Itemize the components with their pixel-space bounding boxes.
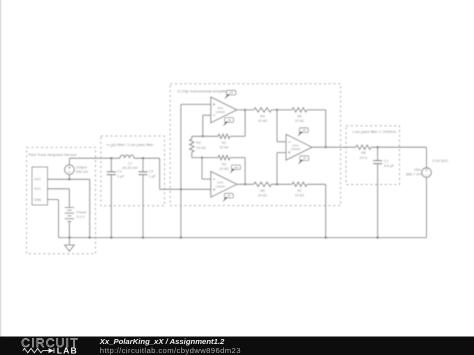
svg-text:R8: R8 [361, 151, 366, 155]
svg-text:L1: L1 [128, 161, 132, 165]
svg-text:C7: C7 [384, 160, 389, 164]
svg-text:Output: Output [76, 165, 87, 169]
svg-text:VM1: VM1 [414, 168, 421, 172]
svg-text:LM324: LM324 [216, 184, 226, 188]
svg-text:π (pi) filter / Low pass filte: π (pi) filter / Low pass filter [107, 142, 155, 147]
svg-text:Pitot Tube Airspeed Sensor: Pitot Tube Airspeed Sensor [28, 152, 77, 157]
svg-text:R6: R6 [297, 114, 302, 118]
svg-text:+5v: +5v [302, 128, 307, 132]
svg-text:10 kΩ: 10 kΩ [295, 119, 305, 123]
svg-text:R7: R7 [297, 189, 302, 193]
svg-text:+5v: +5v [234, 165, 239, 169]
svg-text:R3: R3 [222, 162, 227, 166]
svg-text:1 µF: 1 µF [117, 174, 125, 178]
svg-text:R2: R2 [196, 141, 201, 145]
svg-text:http://circuitlab.com/cbydww89: http://circuitlab.com/cbydww896dm23 [100, 346, 241, 355]
svg-text:R4: R4 [260, 114, 265, 118]
svg-text:26.33 mH: 26.33 mH [122, 166, 138, 170]
svg-text:24 Ω: 24 Ω [360, 156, 368, 160]
svg-text:10 kΩ: 10 kΩ [219, 146, 229, 150]
svg-text:24 kΩ: 24 kΩ [196, 146, 206, 150]
svg-text:Xx_PolarKing_xX / Assignment1.: Xx_PolarKing_xX / Assignment1.2 [99, 337, 225, 346]
svg-text:3-Chip Instrumental Amplifier: 3-Chip Instrumental Amplifier [177, 89, 229, 94]
svg-text:+5v: +5v [229, 91, 234, 95]
svg-text:GND: GND [34, 198, 42, 202]
svg-text:5.0 V: 5.0 V [77, 215, 86, 219]
svg-text:Power: Power [77, 211, 88, 215]
svg-text:R5: R5 [260, 189, 265, 193]
svg-text:LM324: LM324 [291, 147, 301, 151]
svg-text:10 kΩ: 10 kΩ [219, 167, 229, 171]
svg-text:OUT: OUT [34, 178, 41, 182]
svg-text:10 kΩ: 10 kΩ [258, 193, 268, 197]
svg-text:R1: R1 [222, 141, 227, 145]
svg-text:LM324: LM324 [216, 110, 226, 114]
svg-text:VCC: VCC [34, 187, 42, 191]
svg-text:C1: C1 [117, 170, 122, 174]
svg-text:0-5V ADC: 0-5V ADC [433, 159, 449, 163]
svg-text:10 kΩ: 10 kΩ [295, 193, 305, 197]
svg-text:6.8 µF: 6.8 µF [384, 164, 395, 168]
svg-text:10 kΩ: 10 kΩ [258, 119, 268, 123]
svg-text:1 µF: 1 µF [149, 174, 157, 178]
svg-text:Low pass filter // 1000Hz: Low pass filter // 1000Hz [353, 129, 397, 134]
svg-text:C2: C2 [149, 170, 154, 174]
svg-text:V: V [425, 168, 428, 173]
svg-text:886.7 mV: 886.7 mV [406, 173, 422, 177]
svg-text:590 mV: 590 mV [76, 170, 89, 174]
svg-text:LAB: LAB [57, 345, 78, 355]
